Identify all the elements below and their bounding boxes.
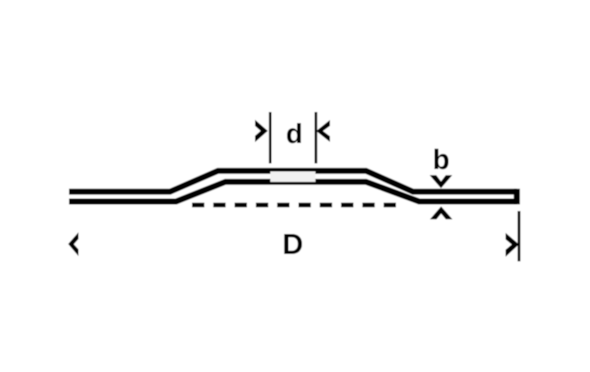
disc bottom surface outline xyxy=(69,182,517,202)
disc right end cap xyxy=(514,189,520,205)
d dimension arrow left (points right) xyxy=(255,120,268,142)
d dimension extension line left xyxy=(269,112,272,163)
D dimension arrow right (points right) xyxy=(506,233,519,257)
label b xyxy=(434,149,448,170)
label D xyxy=(284,234,302,254)
b dimension arrow lower (points up) xyxy=(430,206,452,219)
disc top surface outline xyxy=(69,171,517,192)
D dimension extension line right xyxy=(518,211,521,261)
d dimension extension line right xyxy=(315,112,318,163)
d dimension arrow right (points left) xyxy=(316,120,330,142)
bore (arbor hole) light area xyxy=(270,172,315,182)
b dimension arrow upper (points down) xyxy=(430,175,453,188)
label d xyxy=(287,123,301,143)
dashed centerline for D xyxy=(192,203,397,208)
D dimension arrow left (points left) xyxy=(68,232,78,256)
